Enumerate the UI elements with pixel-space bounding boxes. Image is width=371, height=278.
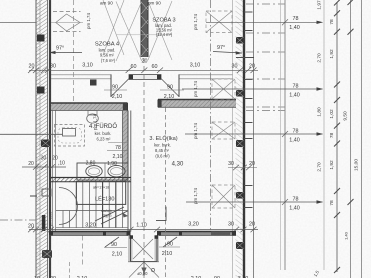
stair walk arrow: [123, 213, 129, 218]
bathtub (dashed): [55, 125, 85, 147]
roof window rect 4: [212, 185, 235, 208]
vertical dimension chain 2: [343, 0, 354, 278]
right side roof dash-dot lines: [246, 4, 285, 111]
left exterior wall: [36, 0, 50, 278]
right wall pillar markers: [236, 37, 244, 249]
staircase: [63, 182, 128, 232]
bathroom door label 78/2,10: [107, 143, 128, 161]
entrance porch: [128, 235, 159, 277]
toilet: [87, 111, 99, 124]
french door right 90/2,10: [157, 237, 180, 257]
extension verticals: [281, 0, 325, 270]
level line top left: [0, 22, 36, 24]
pm labels left: [86, 13, 98, 130]
bathroom right wall: [123, 111, 129, 182]
roof window rect 1: [206, 11, 232, 33]
hall room label: [149, 135, 184, 168]
dash-dot line bottom left: [0, 219, 36, 221]
room label SZOBA 3: [152, 18, 175, 37]
center partition wall top: [141, 0, 148, 57]
mid-left mini chain: [22, 156, 66, 170]
stair run divider: [56, 210, 128, 212]
left wall inner leaf: [53, 103, 56, 232]
corridor top partition wall: [51, 74, 233, 97]
vanity counter with two sinks: [77, 163, 128, 180]
parapet line left: [0, 133, 74, 135]
top dimension chain: [28, 68, 258, 74]
window cross A (szoba4 top): [103, 0, 124, 55]
stair door swing arc: [59, 188, 78, 225]
dashed vertical left (through diamond window): [73, 0, 75, 103]
wall post: [90, 80, 97, 86]
french door left 90/2,10: [104, 237, 127, 258]
door 2 (corridor-szoba3): [160, 79, 184, 101]
dash-dot axis right: [210, 0, 212, 232]
stair break line: [95, 207, 128, 224]
center axis dashed: [143, 58, 145, 278]
corridor bottom wall right piece: [158, 100, 236, 108]
right wall mid dimension 30/20: [228, 161, 257, 170]
corridor bottom wall left piece: [51, 103, 128, 111]
97deg annotation left: [49, 46, 82, 55]
door 1 (corridor-szoba4): [104, 79, 129, 101]
dashed vertical bottom-left terrace: [82, 236, 84, 267]
roof window rect 3: [212, 122, 235, 139]
vertical dimension chain 3: [354, 0, 362, 278]
chimney block: [129, 75, 161, 80]
roof window rect 2: [212, 79, 235, 99]
stair landing box: [76, 181, 125, 204]
pm labels right: [193, 14, 198, 204]
room label SZOBA 4: [95, 42, 120, 64]
dashed vertical below right wall piece: [165, 108, 167, 278]
right exterior wall: [233, 0, 254, 278]
bottom cut text fragments: [34, 276, 248, 278]
left wall pillar markers: [30, 35, 52, 259]
bottom facade wall left: [49, 231, 131, 235]
bottom facade wall right: [157, 231, 236, 235]
window size arrows 78/1,40: [206, 16, 323, 31]
bathroom bottom wall (hatched): [51, 178, 131, 182]
hall left wall: [130, 111, 132, 232]
vertical dimension chain 1: [317, 0, 341, 273]
window jambs in right wall: [236, 12, 254, 208]
hall corner bracket: [156, 207, 166, 221]
wall crosses B C: [116, 1, 172, 61]
bottom dimension chain: [28, 227, 258, 233]
diamond roof window left: [51, 12, 83, 32]
97deg annotation right: [213, 45, 242, 55]
room label FURDO: [89, 123, 117, 141]
